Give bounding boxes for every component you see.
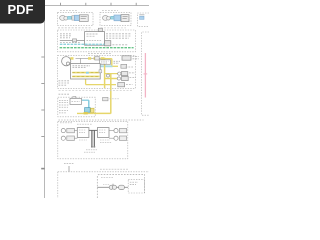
svg-text:PDF: PDF — [8, 2, 34, 17]
